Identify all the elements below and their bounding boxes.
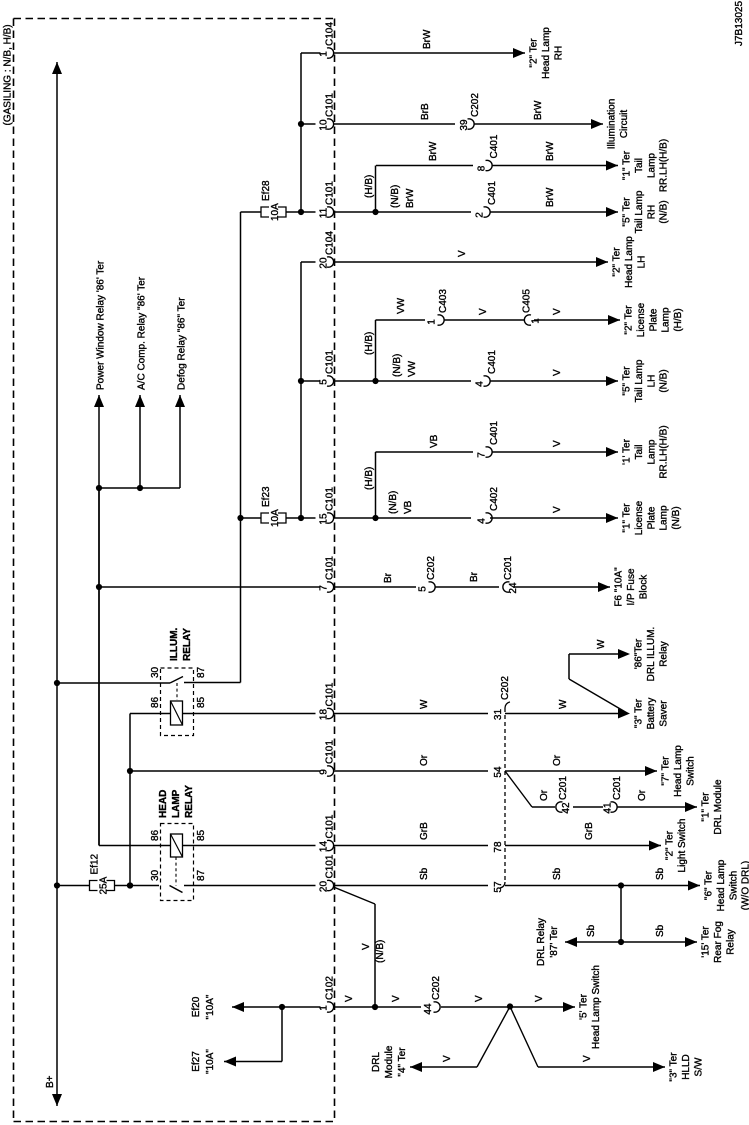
svg-text:Or: Or bbox=[552, 754, 563, 766]
svg-text:W: W bbox=[596, 639, 607, 649]
connector boundary line C101/C102/C104 (right dashed edge) bbox=[334, 19, 336, 1122]
branch wire (H/B) up to W6 bbox=[375, 320, 377, 381]
svg-text:BrW: BrW bbox=[428, 141, 439, 161]
svg-text:Block: Block bbox=[638, 574, 649, 599]
svg-text:Switch: Switch bbox=[685, 756, 696, 785]
svg-text:44: 44 bbox=[423, 1003, 434, 1015]
svg-text:7: 7 bbox=[477, 452, 488, 458]
svg-text:(N/B): (N/B) bbox=[671, 506, 682, 529]
wire W8 (H/B) VB to tail lamp RR.LH bbox=[376, 451, 474, 453]
svg-text:RR.LH(H/B): RR.LH(H/B) bbox=[659, 139, 670, 192]
svg-text:Tail: Tail bbox=[634, 444, 645, 459]
connector C402 pin 4 bbox=[486, 513, 493, 523]
wire W7 VW to tail lamp LH (N/B) bbox=[301, 380, 321, 382]
svg-text:F6 "10A": F6 "10A" bbox=[614, 567, 625, 607]
svg-text:License: License bbox=[634, 500, 645, 535]
wire W4 Ef28 to tail lamp RH (N/B) bbox=[241, 211, 262, 213]
svg-text:C201: C201 bbox=[503, 556, 514, 580]
arrow to A/C Comp. Relay 86 Ter bbox=[139, 395, 141, 488]
svg-text:Relay: Relay bbox=[725, 929, 736, 955]
svg-text:LAMP: LAMP bbox=[171, 789, 182, 818]
fuse Ef23 10A bbox=[261, 513, 269, 523]
svg-text:"5" Ter: "5" Ter bbox=[622, 197, 633, 227]
svg-text:C101: C101 bbox=[325, 740, 336, 764]
rail Ef28 load to wires 1/10 C104-C101 bbox=[300, 53, 302, 212]
svg-text:(N/B): (N/B) bbox=[388, 491, 399, 514]
svg-text:C101: C101 bbox=[325, 181, 336, 205]
svg-text:"10A": "10A" bbox=[205, 994, 216, 1019]
svg-text:Sb: Sb bbox=[586, 924, 597, 937]
svg-text:"2" Ter: "2" Ter bbox=[612, 247, 623, 277]
connector C401 pin 7 bbox=[486, 447, 493, 457]
svg-text:(N/B): (N/B) bbox=[375, 940, 386, 963]
svg-text:V: V bbox=[552, 369, 563, 376]
svg-text:Lamp: Lamp bbox=[646, 153, 657, 178]
svg-text:2: 2 bbox=[475, 212, 486, 218]
connector C401 pin 2 bbox=[484, 207, 491, 217]
connector C401 pin 8 bbox=[486, 160, 493, 170]
wire W1 BrW to head lamp RH bbox=[301, 52, 321, 54]
svg-text:4: 4 bbox=[477, 518, 488, 524]
svg-text:Or: Or bbox=[539, 789, 550, 801]
svg-text:"7" Ter: "7" Ter bbox=[661, 756, 672, 786]
svg-text:"1" Ter: "1" Ter bbox=[622, 503, 633, 533]
wire W3 (H/B) BrW to tail lamp RR.LH bbox=[376, 165, 473, 167]
svg-text:DRL: DRL bbox=[371, 1052, 382, 1072]
svg-text:"1" Ter: "1" Ter bbox=[701, 792, 712, 822]
junction W20 split to DRL module / HLLD bbox=[507, 1003, 513, 1009]
svg-text:C202: C202 bbox=[470, 93, 481, 117]
svg-text:'87' Ter: '87' Ter bbox=[549, 926, 560, 958]
wire W20 V head lamp switch 5 Ter bbox=[232, 1006, 321, 1008]
svg-text:C401: C401 bbox=[489, 134, 500, 158]
svg-text:20: 20 bbox=[319, 257, 330, 269]
branch to DRL module 4 Ter bbox=[477, 1007, 510, 1068]
svg-text:'5' Ter: '5' Ter bbox=[579, 993, 590, 1020]
svg-text:C403: C403 bbox=[438, 289, 449, 313]
svg-text:(N/B): (N/B) bbox=[392, 354, 403, 377]
rail from relay-86 bus down to head lamp relay coil bbox=[98, 488, 100, 846]
svg-text:License: License bbox=[636, 302, 647, 337]
branch wire (H/B) up to W8 bbox=[375, 452, 377, 518]
svg-text:10: 10 bbox=[319, 119, 330, 131]
svg-text:V: V bbox=[478, 308, 489, 315]
svg-text:Circuit: Circuit bbox=[619, 110, 630, 139]
svg-text:I/P Fuse: I/P Fuse bbox=[626, 568, 637, 605]
svg-text:(H/B): (H/B) bbox=[673, 308, 684, 331]
svg-text:87: 87 bbox=[196, 666, 207, 678]
svg-text:Tail: Tail bbox=[634, 158, 645, 173]
junction W18 to lower Sb wire bbox=[618, 882, 624, 888]
svg-text:"2" Ter: "2" Ter bbox=[529, 38, 540, 68]
svg-text:86: 86 bbox=[150, 829, 161, 841]
svg-text:"5" Ter: "5" Ter bbox=[622, 366, 633, 396]
svg-text:Ef20: Ef20 bbox=[191, 996, 202, 1017]
svg-text:DRL ILLUM.: DRL ILLUM. bbox=[646, 627, 657, 682]
svg-text:30: 30 bbox=[150, 869, 161, 881]
svg-text:"2" Ter: "2" Ter bbox=[665, 830, 676, 860]
junction W20 / V N/B rail bbox=[372, 1004, 378, 1010]
wire W2 BrB/BrW illumination circuit bbox=[301, 123, 316, 125]
svg-text:V: V bbox=[442, 1055, 453, 1062]
svg-text:C402: C402 bbox=[489, 487, 500, 511]
junction on B+ rail at Ef12 wire bbox=[54, 882, 60, 888]
svg-text:41: 41 bbox=[603, 802, 614, 814]
svg-text:V: V bbox=[474, 995, 485, 1002]
connector C101 pin 9 bbox=[327, 766, 334, 776]
svg-text:V: V bbox=[391, 995, 402, 1002]
svg-text:HEAD: HEAD bbox=[158, 790, 169, 818]
svg-text:VW: VW bbox=[407, 360, 418, 377]
svg-text:Br: Br bbox=[469, 571, 480, 582]
svg-text:Light Switch: Light Switch bbox=[677, 819, 688, 873]
illum relay switch 30-87 bbox=[57, 682, 170, 684]
svg-text:Tail Lamp: Tail Lamp bbox=[634, 190, 645, 233]
svg-text:(N/B): (N/B) bbox=[659, 200, 670, 223]
svg-text:Lamp: Lamp bbox=[659, 505, 670, 530]
relay HEAD LAMP RELAY dashed box bbox=[161, 824, 194, 901]
connector C101 pin 11 bbox=[327, 207, 334, 217]
wire W15 Or to head lamp switch 7 Ter bbox=[130, 770, 321, 772]
svg-text:C202: C202 bbox=[426, 556, 437, 580]
svg-text:Power Window Relay '86' Ter: Power Window Relay '86' Ter bbox=[96, 260, 107, 390]
svg-text:C202: C202 bbox=[431, 976, 442, 1000]
svg-text:"6" Ter: "6" Ter bbox=[704, 870, 715, 900]
junction W9 to H/B branch bbox=[372, 515, 378, 521]
svg-text:VW: VW bbox=[396, 297, 407, 314]
svg-text:GrB: GrB bbox=[584, 822, 595, 840]
connector C201 pin 41 bbox=[611, 802, 618, 812]
svg-text:VB: VB bbox=[403, 500, 414, 514]
diagonal from 20 C101 to N/B V rail bbox=[334, 887, 376, 904]
svg-text:(H/B): (H/B) bbox=[364, 175, 375, 198]
rail from illum relay 87 up to fuses Ef23/Ef28 bbox=[240, 212, 242, 683]
wire W16 Or to DRL module via C201 42/41 bbox=[505, 771, 532, 807]
connector C101 pin 20 (lower) bbox=[327, 880, 334, 890]
svg-text:85: 85 bbox=[196, 696, 207, 708]
svg-text:Plate: Plate bbox=[648, 308, 659, 331]
svg-text:9: 9 bbox=[319, 769, 330, 775]
svg-text:Head Lamp Switch: Head Lamp Switch bbox=[591, 965, 602, 1049]
svg-text:8: 8 bbox=[477, 165, 488, 171]
svg-text:5: 5 bbox=[319, 379, 330, 385]
svg-text:"1" Ter: "1" Ter bbox=[622, 150, 633, 180]
svg-text:BrB: BrB bbox=[420, 103, 431, 120]
svg-text:Tail Lamp: Tail Lamp bbox=[634, 359, 645, 402]
svg-text:(GASILING : N/B, H/B): (GASILING : N/B, H/B) bbox=[3, 24, 14, 125]
svg-text:RH: RH bbox=[553, 46, 564, 60]
svg-text:C101: C101 bbox=[325, 682, 336, 706]
wire W19 Sb DRL relay 87 / rear fog relay bbox=[620, 886, 622, 943]
svg-text:LH: LH bbox=[636, 256, 647, 269]
branch diagonal to DRL illum relay arrow bbox=[569, 679, 628, 714]
svg-text:Battery: Battery bbox=[646, 698, 657, 730]
svg-text:85: 85 bbox=[196, 829, 207, 841]
svg-text:57: 57 bbox=[493, 881, 504, 893]
head lamp relay coil 86 wire from rail99 bbox=[98, 488, 100, 846]
svg-text:15: 15 bbox=[319, 513, 330, 525]
svg-text:7: 7 bbox=[319, 585, 330, 591]
relay ILLUM. RELAY dashed box bbox=[161, 668, 194, 736]
svg-text:DRL Relay: DRL Relay bbox=[536, 918, 547, 966]
svg-text:Illumination: Illumination bbox=[607, 99, 618, 150]
svg-text:"4" Ter: "4" Ter bbox=[397, 1047, 408, 1077]
svg-text:BrW: BrW bbox=[545, 141, 556, 161]
svg-text:LH: LH bbox=[646, 375, 657, 388]
connector C202 pin 44 bbox=[434, 1002, 441, 1012]
connector C101 pin 10 bbox=[327, 119, 334, 129]
svg-text:C202: C202 bbox=[500, 676, 511, 700]
connector C403 pin 1 bbox=[438, 315, 445, 325]
svg-text:V: V bbox=[457, 250, 468, 257]
svg-text:24: 24 bbox=[508, 582, 519, 594]
svg-text:HLLD: HLLD bbox=[681, 1054, 692, 1080]
junction on B+ rail at illum relay 30 wire bbox=[54, 680, 60, 686]
svg-text:Relay: Relay bbox=[658, 641, 669, 667]
svg-text:Ef27: Ef27 bbox=[191, 1051, 202, 1072]
svg-text:Head Lamp: Head Lamp bbox=[624, 236, 635, 288]
svg-text:A/C Comp. Relay "86' Ter: A/C Comp. Relay "86' Ter bbox=[137, 276, 148, 390]
connector C201 pin 42 bbox=[556, 802, 563, 812]
svg-text:VB: VB bbox=[429, 434, 440, 448]
svg-text:C101: C101 bbox=[325, 93, 336, 117]
connector C202 pin 5 bbox=[429, 582, 436, 592]
head lamp relay link dashed bbox=[175, 857, 177, 886]
svg-text:(N/B): (N/B) bbox=[659, 369, 670, 392]
svg-text:C401: C401 bbox=[487, 350, 498, 374]
svg-text:30: 30 bbox=[150, 666, 161, 678]
svg-text:B+: B+ bbox=[45, 1075, 56, 1088]
bus wire linking the three relay arrows bbox=[99, 487, 180, 489]
svg-text:RR.LH(H/B): RR.LH(H/B) bbox=[659, 425, 670, 478]
svg-text:Rear Fog: Rear Fog bbox=[713, 921, 724, 963]
connector C202 pin 39 bbox=[468, 119, 475, 129]
svg-text:5: 5 bbox=[418, 586, 429, 592]
svg-text:78: 78 bbox=[493, 841, 504, 853]
connector C101 pin 14 bbox=[327, 840, 334, 850]
connector C102 pin 1 bbox=[327, 1002, 334, 1012]
svg-text:(H/B): (H/B) bbox=[364, 332, 375, 355]
head lamp relay coil 85 wire to 14 C101 bbox=[183, 845, 316, 847]
svg-text:(N/B): (N/B) bbox=[390, 185, 401, 208]
svg-text:Plate: Plate bbox=[646, 506, 657, 529]
svg-text:Saver: Saver bbox=[658, 700, 669, 727]
svg-text:C401: C401 bbox=[489, 421, 500, 445]
svg-text:Br: Br bbox=[383, 572, 394, 583]
connector C202 interface dashed line bbox=[504, 708, 506, 882]
branch wire to Ef27 bbox=[281, 1007, 283, 1062]
junction rail99/Br wire bbox=[96, 584, 102, 590]
svg-text:1: 1 bbox=[427, 319, 438, 325]
svg-text:C201: C201 bbox=[612, 776, 623, 800]
svg-text:Sb: Sb bbox=[655, 924, 666, 937]
connector C101 pin 15 bbox=[327, 513, 334, 523]
svg-text:Ef28: Ef28 bbox=[261, 180, 272, 201]
branch to HLLD switch 3 Ter bbox=[510, 1007, 538, 1068]
junction W20 branch to Ef27 bbox=[279, 1004, 285, 1010]
svg-text:Lamp: Lamp bbox=[661, 307, 672, 332]
junction W4 to H/B branch bbox=[372, 209, 378, 215]
svg-text:ILLUM.: ILLUM. bbox=[169, 627, 180, 661]
svg-text:Ef23: Ef23 bbox=[261, 486, 272, 507]
svg-text:11: 11 bbox=[319, 207, 330, 218]
fuse Ef12 25A wire from B+ bbox=[57, 885, 90, 887]
svg-text:S/W: S/W bbox=[693, 1057, 704, 1076]
svg-text:'1' Ter: '1' Ter bbox=[622, 438, 633, 465]
svg-text:BrW: BrW bbox=[422, 29, 433, 49]
connector C104 pin 1 bbox=[327, 48, 334, 58]
svg-text:V: V bbox=[344, 995, 355, 1002]
illum relay link dashed bbox=[176, 683, 178, 700]
svg-text:Sb: Sb bbox=[419, 867, 430, 880]
svg-text:Head Lamp: Head Lamp bbox=[716, 859, 727, 911]
svg-text:C101: C101 bbox=[325, 487, 336, 511]
svg-text:1: 1 bbox=[319, 1005, 330, 1011]
arrow to Power Window Relay 86 Ter bbox=[98, 395, 100, 488]
svg-text:Switch: Switch bbox=[728, 871, 739, 900]
connector C101 pin 7 bbox=[327, 582, 334, 592]
svg-text:C101: C101 bbox=[325, 556, 336, 580]
arrow to Defog Relay 86 Ter bbox=[179, 395, 181, 488]
svg-text:C401: C401 bbox=[487, 181, 498, 205]
svg-text:10A: 10A bbox=[270, 509, 281, 527]
svg-text:C104: C104 bbox=[325, 22, 336, 46]
svg-text:W: W bbox=[558, 699, 569, 709]
svg-text:C104: C104 bbox=[325, 231, 336, 255]
svg-text:Lamp: Lamp bbox=[646, 439, 657, 464]
fuse Ef12 25A bbox=[90, 881, 98, 891]
svg-text:RH: RH bbox=[646, 205, 657, 219]
svg-text:V: V bbox=[582, 1055, 593, 1062]
svg-text:W: W bbox=[419, 699, 430, 709]
svg-text:"10A": "10A" bbox=[205, 1049, 216, 1074]
svg-text:V: V bbox=[361, 943, 372, 950]
svg-text:C201: C201 bbox=[558, 776, 569, 800]
illum relay coil 85 wire to 18 C101 bbox=[183, 713, 316, 715]
svg-text:C101: C101 bbox=[325, 350, 336, 374]
svg-text:"2" Ter: "2" Ter bbox=[624, 305, 635, 335]
svg-text:GrB: GrB bbox=[419, 822, 430, 840]
head lamp relay coil bbox=[171, 834, 183, 857]
svg-text:10A: 10A bbox=[270, 203, 281, 221]
svg-text:V: V bbox=[552, 506, 563, 513]
svg-text:Ef12: Ef12 bbox=[90, 853, 101, 874]
svg-text:39: 39 bbox=[459, 119, 470, 131]
rail from illum relay coil 86 down to Ef12 output bbox=[129, 714, 131, 886]
svg-text:Sb: Sb bbox=[552, 867, 563, 880]
svg-text:25A: 25A bbox=[99, 876, 110, 894]
junction W7 to H/B branch bbox=[372, 378, 378, 384]
connector C101 pin 18 bbox=[327, 708, 334, 718]
head lamp relay switch 30-87 bbox=[170, 886, 183, 893]
svg-text:Or: Or bbox=[419, 754, 430, 766]
svg-text:14: 14 bbox=[319, 841, 330, 853]
svg-text:C102: C102 bbox=[325, 976, 336, 1000]
svg-text:Or: Or bbox=[637, 789, 648, 801]
svg-text:C101: C101 bbox=[325, 814, 336, 838]
svg-text:1: 1 bbox=[531, 318, 542, 324]
fuse Ef28 10A bbox=[261, 207, 269, 217]
illum relay coil bbox=[171, 701, 183, 725]
svg-text:DRL Module: DRL Module bbox=[713, 779, 724, 835]
svg-text:V: V bbox=[534, 995, 545, 1002]
svg-text:RELAY: RELAY bbox=[184, 785, 195, 818]
svg-text:'86"Ter: '86"Ter bbox=[634, 638, 645, 669]
connector C201 pin 24 bbox=[503, 582, 510, 592]
wire W5 V to head lamp LH bbox=[301, 261, 316, 263]
svg-text:(H/B): (H/B) bbox=[364, 467, 375, 490]
branch wire (H/B) up to W3 bbox=[375, 166, 377, 213]
connector C101 pin 5 bbox=[327, 376, 334, 386]
svg-text:54: 54 bbox=[493, 766, 504, 778]
svg-text:V: V bbox=[552, 440, 563, 447]
svg-text:Head Lamp: Head Lamp bbox=[673, 745, 684, 797]
wire W9 Ef23 to license plate lamp (N/B) bbox=[241, 517, 262, 519]
wire W6 (H/B) VW to license plate lamp bbox=[376, 319, 426, 321]
svg-text:V: V bbox=[552, 308, 563, 315]
frame: outer dashed border of engine-room harness area bbox=[14, 18, 335, 20]
svg-text:"3" Ter: "3" Ter bbox=[669, 1052, 680, 1082]
wire W10 Br to I/P fuse block F6 bbox=[99, 586, 321, 588]
connector C405 pin 1 bbox=[524, 315, 531, 325]
svg-text:1: 1 bbox=[319, 51, 330, 57]
svg-text:BrW: BrW bbox=[533, 100, 544, 120]
svg-text:86: 86 bbox=[150, 696, 161, 708]
svg-text:C405: C405 bbox=[522, 289, 533, 313]
svg-text:"3" Ter: "3" Ter bbox=[634, 698, 645, 728]
svg-text:BrW: BrW bbox=[405, 188, 416, 208]
svg-text:RELAY: RELAY bbox=[182, 628, 193, 661]
svg-text:(W/O DRL): (W/O DRL) bbox=[741, 861, 749, 910]
wire W25 to battery saver bbox=[505, 713, 628, 715]
rail Ef23 load to wires 20/5 C104-C101 bbox=[300, 262, 302, 518]
svg-text:Head Lamp: Head Lamp bbox=[541, 27, 552, 79]
svg-text:4: 4 bbox=[475, 381, 486, 387]
illum relay coil 86 wire bbox=[130, 713, 171, 715]
svg-text:Defog Relay "86" Ter: Defog Relay "86" Ter bbox=[177, 297, 188, 390]
svg-text:Module: Module bbox=[384, 1045, 395, 1078]
svg-text:'15' Ter: '15' Ter bbox=[701, 926, 712, 958]
svg-text:C101: C101 bbox=[325, 854, 336, 878]
svg-text:BrW: BrW bbox=[545, 187, 556, 207]
B+ supply rail bbox=[56, 62, 58, 1106]
svg-text:18: 18 bbox=[319, 709, 330, 721]
svg-text:87: 87 bbox=[196, 869, 207, 881]
connector C104 pin 20 bbox=[327, 257, 334, 267]
svg-text:J7B13025: J7B13025 bbox=[734, 1, 745, 46]
svg-text:42: 42 bbox=[561, 802, 572, 814]
svg-text:31: 31 bbox=[493, 709, 504, 721]
svg-text:Sb: Sb bbox=[655, 867, 666, 880]
rail V (N/B) down to W20 bbox=[374, 904, 376, 1007]
svg-text:20: 20 bbox=[319, 881, 330, 893]
connector C401 pin 4 bbox=[484, 376, 491, 386]
